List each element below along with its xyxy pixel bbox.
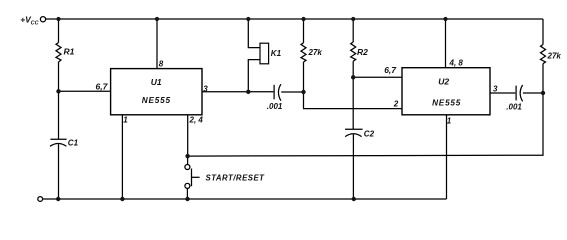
- wire K1 column upper: [248, 19, 260, 48]
- svg-text:U2: U2: [438, 76, 449, 86]
- svg-text:3: 3: [203, 84, 208, 93]
- svg-text:6,7: 6,7: [384, 65, 397, 75]
- wire R2/C2 node down to C2: [352, 77, 354, 129]
- wire R1 column top: [58, 19, 60, 43]
- wire U1 pin8 stub: [156, 19, 158, 69]
- resistor R1: [56, 43, 61, 63]
- wire C2 to bottom rail: [352, 134, 354, 199]
- wire U1 pin1 down: [121, 115, 123, 199]
- node R1 / pin6,7: [56, 89, 60, 93]
- svg-text:4, 8: 4, 8: [449, 59, 464, 68]
- svg-text:C2: C2: [364, 130, 375, 139]
- svg-text:START/RESET: START/RESET: [206, 173, 266, 182]
- node 27k / cap: [301, 90, 305, 94]
- capacitor C2: [345, 128, 363, 130]
- wire K1 column lower: [248, 60, 260, 92]
- terminal +Vcc: [40, 17, 45, 22]
- svg-text:NE555: NE555: [142, 96, 171, 105]
- wire U2 pin4,8 stub: [445, 19, 447, 68]
- svg-text:2, 4: 2, 4: [189, 116, 204, 125]
- svg-text:NE555: NE555: [432, 99, 461, 108]
- svg-text:1: 1: [123, 116, 128, 125]
- svg-text:.001: .001: [267, 102, 283, 111]
- node R2 / C2 / pin6,7: [351, 75, 355, 79]
- svg-text:K1: K1: [271, 49, 282, 58]
- wire top-right corner down to 27k: [542, 19, 544, 45]
- wire R2/C2 node to U2 pin6,7: [353, 76, 402, 78]
- wire bottom ground rail: [43, 198, 447, 200]
- svg-text:C1: C1: [68, 138, 79, 147]
- wire Vcc top rail: [46, 18, 543, 20]
- node switch top: [185, 154, 189, 158]
- wire R2 to 6,7 node: [352, 61, 354, 77]
- svg-text:2: 2: [393, 100, 399, 109]
- wire cap to 27k right node: [523, 92, 543, 94]
- relay K1: [260, 43, 269, 64]
- node 27k right / cap: [541, 91, 545, 95]
- svg-text:27k: 27k: [308, 48, 323, 57]
- svg-text:27k: 27k: [547, 52, 562, 61]
- svg-text:U1: U1: [151, 77, 162, 87]
- wire 27k column top: [303, 19, 305, 43]
- wire U2 pin1 down to bottom rail: [446, 115, 448, 199]
- wire U1 pin3 to cap: [202, 91, 273, 93]
- resistor 27k: [301, 43, 306, 62]
- wire 27k right to pin3 node: [542, 64, 544, 93]
- node top rail junctions: [56, 17, 60, 21]
- node bottom rail C2: [352, 197, 356, 201]
- wire pin2 node to U2 pin2: [304, 92, 403, 109]
- switch START/RESET: [187, 156, 189, 164]
- node K1 / pin3: [246, 90, 250, 94]
- wire R1 to C1: [58, 62, 60, 139]
- capacitor C1: [50, 138, 66, 140]
- op-amp U1 (NE555 timer box): [111, 69, 202, 115]
- wire 27k to pin3 node: [303, 62, 305, 92]
- resistor 27k right: [541, 45, 546, 64]
- wire cap to 27k node: [281, 91, 303, 93]
- capacitor .001 left: [273, 85, 275, 100]
- svg-text:1: 1: [447, 117, 452, 126]
- svg-text:3: 3: [493, 85, 498, 94]
- resistor R2: [351, 42, 356, 61]
- wire U2 pin3 to cap: [490, 92, 515, 94]
- wire U1 pin2,4 down: [187, 115, 189, 156]
- wire 27k bottom down and long reset wire left: [188, 93, 543, 156]
- svg-text:8: 8: [159, 59, 164, 68]
- svg-text:R2: R2: [357, 47, 368, 57]
- capacitor .001 right: [515, 86, 517, 101]
- wire U1 pin6,7: [59, 90, 111, 92]
- svg-text:.001: .001: [506, 103, 522, 112]
- node bottom rail switch: [185, 197, 189, 201]
- svg-text:6,7: 6,7: [96, 82, 109, 92]
- op-amp U2 (NE555 timer box): [402, 68, 490, 115]
- node bottom rail C1: [56, 197, 60, 201]
- wire C1 to bottom rail: [58, 144, 60, 199]
- node bottom rail U1 pin1: [120, 197, 124, 201]
- wire R2 column top: [352, 19, 354, 42]
- svg-text:R1: R1: [64, 47, 75, 57]
- terminal bottom: [38, 197, 43, 202]
